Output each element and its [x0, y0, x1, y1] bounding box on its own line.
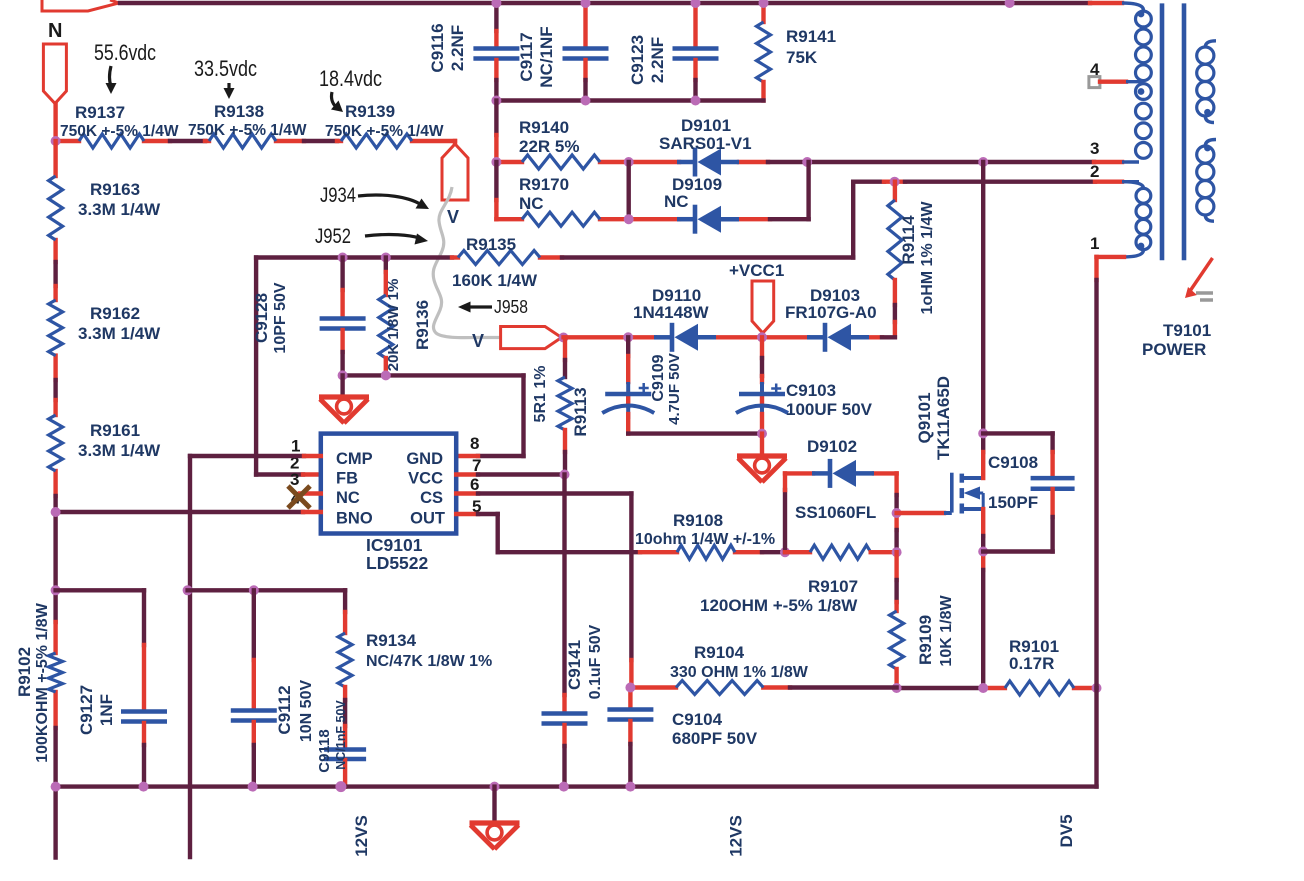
svg-text:J958: J958: [494, 297, 528, 317]
resistor R9108: [677, 545, 735, 559]
capacitor C9123: [693, 3, 697, 47]
op-amp IC9101 LD5522 body: [321, 434, 456, 534]
svg-text:750K +-5% 1/4W: 750K +-5% 1/4W: [60, 123, 179, 140]
svg-text:DV5: DV5: [1057, 814, 1076, 847]
svg-text:R9170: R9170: [519, 175, 569, 194]
resistor R9136: [384, 258, 388, 273]
svg-text:V: V: [472, 331, 484, 351]
connector J-top (clipped at top edge): [42, 0, 119, 11]
wire FB divider row: [256, 255, 452, 259]
capacitor C9103 (electrolytic): [760, 337, 764, 358]
wire snubber bottom rail: [496, 98, 763, 102]
node rail-C9118: [335, 781, 346, 792]
wire stub to ground symbol 1: [340, 375, 344, 396]
svg-text:FR107G-A0: FR107G-A0: [785, 303, 877, 322]
transformer T9101 secondary winding lower: [1205, 140, 1216, 147]
svg-text:C9117: C9117: [517, 32, 536, 81]
wire R9104 row: [630, 685, 676, 689]
svg-text:12VS: 12VS: [727, 815, 746, 857]
arrow 18.4vdc: [332, 92, 337, 107]
transformer T9101 secondary winding upper: [1205, 41, 1216, 47]
svg-text:NC: NC: [519, 194, 544, 213]
resistor R9102: [49, 653, 63, 692]
resistor R9162: [49, 300, 63, 356]
wire sense row: [897, 686, 984, 690]
wire CMP pin line: [190, 454, 304, 458]
svg-text:D9102: D9102: [807, 437, 857, 456]
svg-text:160K 1/4W: 160K 1/4W: [452, 271, 538, 290]
svg-text:4.7UF 50V: 4.7UF 50V: [666, 353, 683, 425]
capacitor C9128: [340, 258, 344, 291]
svg-text:8: 8: [470, 434, 479, 453]
node gate junction: [892, 508, 902, 518]
resistor R9114: [893, 182, 897, 200]
node V plug tip: [559, 333, 569, 343]
svg-text:0.1uF 50V: 0.1uF 50V: [587, 624, 604, 699]
node MOSFET drain branch: [978, 157, 988, 167]
svg-text:120OHM +-5% 1/8W: 120OHM +-5% 1/8W: [700, 596, 858, 615]
svg-text:BNO: BNO: [336, 510, 373, 528]
node mains row left: [51, 136, 61, 146]
wire C9116 branch down to R9140 row: [494, 101, 498, 136]
diode D9109: [693, 205, 698, 234]
svg-text:C9127: C9127: [77, 685, 96, 735]
svg-text:750K +-5% 1/4W: 750K +-5% 1/4W: [325, 123, 444, 140]
wire gnd loop bottom: [343, 373, 524, 377]
svg-text:10ohm 1/4W +/-1%: 10ohm 1/4W +/-1%: [635, 531, 775, 548]
resistor R9113: [563, 338, 567, 361]
svg-text:R9134: R9134: [366, 631, 417, 650]
wire CS vertical: [629, 494, 633, 661]
svg-text:R9102: R9102: [15, 647, 34, 697]
wire gate lead: [897, 511, 944, 515]
node BNO-left-rail: [51, 507, 61, 517]
svg-text:7: 7: [472, 456, 481, 475]
svg-text:20K 1/8W 1%: 20K 1/8W 1%: [385, 279, 402, 372]
wire VCC pin line: [456, 472, 478, 476]
svg-text:10PF 50V: 10PF 50V: [272, 282, 289, 353]
capacitor C9118: [343, 687, 347, 700]
svg-text:N: N: [48, 20, 62, 42]
arrow J934: [358, 195, 420, 204]
node C9117 top: [581, 0, 591, 8]
node rail-C9104: [625, 782, 635, 792]
svg-text:POWER: POWER: [1142, 340, 1206, 359]
wire OUT pin line: [456, 512, 478, 516]
resistor R9161: [49, 415, 63, 471]
transformer pin 4 square: [1089, 77, 1100, 88]
svg-text:4: 4: [1090, 60, 1100, 79]
wire pin 4 tap: [1100, 79, 1126, 83]
wire gnd loop right vertical to pin8: [521, 375, 525, 456]
wire C9116 branch down to R9170 row: [494, 162, 498, 200]
svg-text:R9135: R9135: [466, 235, 516, 254]
node rail-C9112: [248, 782, 258, 792]
svg-text:Q9101: Q9101: [915, 392, 934, 443]
svg-text:2.2NF: 2.2NF: [448, 25, 467, 71]
node snubber-C9123: [691, 96, 701, 106]
svg-text:330 OHM 1% 1/8W: 330 OHM 1% 1/8W: [670, 664, 809, 681]
node C9128 top: [338, 253, 348, 263]
svg-text:C9108: C9108: [988, 453, 1038, 472]
svg-text:C9128: C9128: [252, 293, 271, 343]
wire drain vertical: [981, 162, 985, 433]
ground symbol 1: [319, 394, 369, 399]
resistor R9163: [49, 176, 63, 240]
chassis arrow at transformer: [1190, 258, 1213, 291]
chassis symbol (grey): [1196, 291, 1213, 295]
wire R9140-D9101 junction vertical: [627, 162, 631, 219]
svg-text:1N4148W: 1N4148W: [633, 303, 710, 322]
capacitor C9108 loop: [983, 431, 1052, 435]
svg-text:NC/47K 1/8W 1%: NC/47K 1/8W 1%: [366, 653, 492, 670]
connector V upper (J934): [442, 144, 468, 200]
svg-text:3.3M 1/4W: 3.3M 1/4W: [78, 441, 161, 460]
svg-text:R9140: R9140: [519, 118, 569, 137]
svg-text:2: 2: [1090, 162, 1099, 181]
wire FB pin line: [256, 472, 303, 476]
svg-text:680PF 50V: 680PF 50V: [672, 729, 758, 748]
wire y590 segment B: [188, 588, 346, 592]
svg-text:R9104: R9104: [694, 643, 745, 662]
node C9109 top: [623, 332, 633, 342]
node R9114 top: [890, 177, 900, 187]
node CMP-y590: [183, 585, 193, 595]
svg-text:18.4vdc: 18.4vdc: [319, 66, 382, 91]
wire D9102 loop left: [783, 490, 787, 552]
node rail-C9127: [139, 782, 149, 792]
wire GND pin line: [478, 454, 524, 458]
arrow 33.5vdc: [227, 83, 230, 91]
node gnd-R9136: [381, 370, 391, 380]
svg-text:TK11A65D: TK11A65D: [934, 376, 953, 460]
svg-text:IC9101: IC9101: [366, 535, 423, 555]
arrow J958: [468, 305, 492, 308]
node gnd-C9128: [338, 370, 348, 380]
svg-text:R9139: R9139: [345, 102, 395, 121]
wire divider row up to transformer pin 2: [851, 182, 855, 258]
wire stub to ground symbol 3: [492, 787, 496, 822]
svg-text:NC/1nF 50V: NC/1nF 50V: [334, 700, 348, 770]
node R9170-D9109: [624, 214, 634, 224]
transformer T9101 primary winding lower: [1122, 182, 1143, 188]
svg-text:C9123: C9123: [628, 35, 647, 85]
connector +VCC1: [752, 281, 774, 333]
diode D9110: [670, 323, 675, 352]
no-connect X on pin 3: [288, 486, 310, 508]
wire bottom ground rail: [56, 784, 1097, 788]
wire D9102 row: [785, 471, 813, 475]
wire source vertical: [981, 509, 985, 536]
svg-text:R9136: R9136: [413, 300, 432, 350]
svg-text:R9138: R9138: [214, 102, 264, 121]
svg-text:NC: NC: [664, 192, 689, 211]
svg-text:12VS: 12VS: [352, 815, 371, 857]
svg-text:10N 50V: 10N 50V: [298, 680, 315, 743]
svg-text:2.2NF: 2.2NF: [648, 37, 667, 83]
svg-text:C9104: C9104: [672, 710, 723, 729]
node left rail y590: [51, 585, 61, 595]
node snubber-C9117: [581, 96, 591, 106]
wire FB loop left vertical: [254, 258, 258, 475]
svg-text:3.3M 1/4W: 3.3M 1/4W: [78, 324, 161, 343]
svg-text:1NF: 1NF: [97, 694, 116, 726]
wire top rail to transformer: [120, 1, 1090, 5]
node D9101 right: [802, 157, 812, 167]
svg-text:OUT: OUT: [410, 510, 445, 528]
svg-text:SARS01-V1: SARS01-V1: [659, 134, 752, 153]
svg-text:100UF 50V: 100UF 50V: [786, 400, 873, 419]
svg-text:J952: J952: [315, 225, 351, 248]
resistor R9138: [209, 134, 276, 148]
diode D9101: [693, 148, 698, 177]
node source-row: [978, 683, 988, 693]
node R9107 right: [892, 547, 902, 557]
resistor R9109: [894, 552, 898, 580]
svg-text:C9116: C9116: [428, 23, 447, 72]
wire N plug to mains row: [53, 104, 57, 142]
svg-text:R9162: R9162: [90, 304, 140, 323]
node rail-gnd stub: [490, 782, 500, 792]
node VCC junction: [560, 470, 570, 480]
svg-text:T9101: T9101: [1163, 321, 1211, 340]
svg-text:SS1060FL: SS1060FL: [795, 503, 876, 522]
connector N plug: [43, 44, 66, 104]
node R9108-R9107: [780, 547, 790, 557]
svg-text:75K: 75K: [786, 48, 818, 67]
svg-text:R9107: R9107: [808, 577, 858, 596]
resistor R9104: [676, 681, 763, 695]
resistor R9141: [761, 3, 765, 22]
arrow 55.6vdc: [110, 66, 112, 86]
node C9112 top: [249, 585, 259, 595]
capacitor C9112 branch: [252, 590, 256, 660]
resistor R9137: [79, 134, 144, 148]
wire mains divider row: [56, 139, 79, 143]
right clip mask: [1215, 305, 1304, 881]
svg-text:C9141: C9141: [565, 640, 584, 690]
svg-text:VCC: VCC: [408, 470, 443, 488]
svg-text:750K +-5% 1/4W: 750K +-5% 1/4W: [188, 122, 307, 139]
svg-text:0.17R: 0.17R: [1009, 654, 1054, 673]
transistor Q9101 TK11A65D (MOSFET): [950, 473, 954, 513]
svg-text:1: 1: [1090, 234, 1099, 253]
svg-text:+VCC1: +VCC1: [729, 261, 784, 280]
wire R9140/D9101 row to transformer pin 3: [496, 160, 522, 164]
transformer T9101 primary top connection: [1122, 3, 1143, 10]
diode D9103: [823, 323, 828, 352]
node R9101 right: [1092, 683, 1102, 693]
svg-text:J934: J934: [320, 184, 356, 207]
svg-text:R9108: R9108: [673, 511, 723, 530]
node rail-left: [51, 782, 61, 792]
svg-text:D9101: D9101: [681, 116, 731, 135]
wire pin2 line: [853, 179, 884, 183]
svg-text:CS: CS: [420, 489, 443, 507]
svg-text:3.3M 1/4W: 3.3M 1/4W: [78, 200, 161, 219]
capacitor C9141 on VCC vertical: [562, 475, 566, 696]
wire y590 segment A: [56, 588, 144, 592]
svg-text:FB: FB: [336, 470, 358, 488]
svg-text:1oHM 1% 1/4W: 1oHM 1% 1/4W: [919, 201, 936, 315]
node rail-C9141: [559, 782, 569, 792]
svg-text:NC: NC: [336, 489, 360, 507]
svg-text:150PF: 150PF: [988, 493, 1038, 512]
resistor R9101: [1005, 681, 1074, 695]
connector V lower (J958): [501, 327, 562, 349]
node C9108 bottom: [978, 547, 988, 557]
node C9108 top: [978, 428, 988, 438]
wire R9170/D9109 row: [496, 217, 522, 221]
resistor R9170: [522, 212, 600, 226]
capacitor C9116: [494, 3, 498, 31]
arrow J952: [365, 235, 419, 238]
svg-text:R9163: R9163: [90, 180, 140, 199]
svg-text:NC/1NF: NC/1NF: [537, 26, 556, 87]
resistor R9139: [341, 134, 412, 148]
svg-text:V: V: [447, 207, 459, 227]
svg-text:6: 6: [470, 475, 479, 494]
node R9109 bottom: [892, 683, 902, 693]
svg-text:5R1 1%: 5R1 1%: [532, 366, 549, 423]
wire OUT vertical: [496, 514, 500, 552]
capacitor C9104 on CS vertical: [628, 688, 632, 707]
ground symbol 2: [737, 453, 787, 458]
svg-text:R9113: R9113: [571, 387, 590, 436]
svg-text:R9161: R9161: [90, 421, 140, 440]
node R9140 left: [491, 157, 501, 167]
transformer core: [1160, 3, 1165, 260]
wire D9102 loop right: [894, 473, 898, 495]
wire VCC diode row: [564, 335, 629, 339]
wire CS pin line: [456, 491, 478, 495]
svg-text:10K 1/8W: 10K 1/8W: [938, 595, 955, 667]
svg-text:C9118: C9118: [316, 729, 333, 772]
wire stub to ground symbol 2: [760, 434, 764, 455]
svg-text:22R 5%: 22R 5%: [519, 137, 579, 156]
svg-text:C9109: C9109: [650, 354, 667, 401]
pin 3 NC stub: [300, 491, 321, 495]
svg-text:100KOHM +-5% 1/8W: 100KOHM +-5% 1/8W: [34, 602, 51, 763]
svg-text:CMP: CMP: [336, 450, 373, 468]
svg-text:33.5vdc: 33.5vdc: [194, 56, 257, 81]
capacitor C9109 (electrolytic): [626, 337, 630, 356]
node cap-gnd junction: [757, 429, 767, 439]
svg-text:R9141: R9141: [786, 27, 836, 46]
capacitor C9127 branch: [142, 590, 146, 645]
svg-text:C9112: C9112: [275, 685, 294, 734]
ground symbol 3: [470, 820, 520, 825]
node R9141 top: [759, 0, 769, 8]
wire pin1 vertical: [1094, 257, 1098, 280]
node C9104-R9104: [625, 683, 635, 693]
jumper wire J934/J952/J958 (grey): [433, 187, 514, 338]
resistor R9134 branch: [343, 590, 347, 612]
resistor R9140: [522, 155, 600, 169]
node R9140-D9101: [624, 157, 634, 167]
svg-text:R9114: R9114: [899, 215, 918, 265]
resistor R9135: [458, 251, 540, 265]
diode D9102: [828, 459, 833, 488]
wire OUT row: [498, 550, 640, 554]
wire pin 1 stub: [1097, 255, 1125, 259]
resistor R9107: [785, 550, 810, 554]
wire cap bottoms: [628, 431, 762, 435]
transformer T9101 primary winding middle: [1136, 84, 1152, 100]
svg-text:55.6vdc: 55.6vdc: [94, 40, 156, 65]
capacitor C9117: [583, 3, 587, 47]
svg-text:C9103: C9103: [786, 381, 836, 400]
node C9116 top: [491, 0, 501, 8]
wire CMP vertical: [188, 456, 192, 857]
node snubber-C9116: [491, 96, 501, 106]
svg-text:R9137: R9137: [75, 103, 125, 122]
svg-text:R9109: R9109: [916, 615, 935, 665]
node R9136 top: [381, 253, 391, 263]
wire D9109 row up to D9101 row: [806, 162, 810, 219]
svg-text:3: 3: [1090, 139, 1099, 158]
svg-text:GND: GND: [406, 450, 443, 468]
node C9123 top: [691, 0, 701, 8]
node top-rail junction: [1005, 0, 1015, 8]
wire BNO pin line: [56, 510, 303, 514]
svg-text:LD5522: LD5522: [366, 553, 429, 573]
wire left rail: [53, 141, 57, 176]
transformer T9101 primary winding upper: [1136, 11, 1152, 27]
node C9103 top: [757, 332, 767, 342]
